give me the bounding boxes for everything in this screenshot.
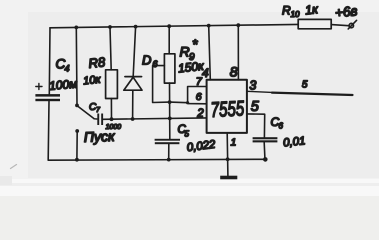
node: C5/R9-trigger junction <box>168 117 172 121</box>
node: rail-D6 junction <box>134 25 138 29</box>
wire: pin 7 branch <box>188 87 207 103</box>
svg-text:1000: 1000 <box>106 124 122 131</box>
IC U1: 7555 timer body <box>207 80 247 133</box>
svg-text:6: 6 <box>196 91 202 103</box>
wire: C5 bottom lead <box>168 144 170 159</box>
wire: D6 top lead <box>133 27 135 76</box>
svg-text:10к: 10к <box>83 74 102 88</box>
node: rail end dot <box>263 157 268 162</box>
diode D6 triangle <box>124 77 142 90</box>
wire: trigger line C7 to pin 2 <box>103 118 207 119</box>
wire: R10 to terminal <box>331 25 348 26</box>
wire: ground bottom rail <box>48 158 265 161</box>
capacitor C5 <box>155 139 180 141</box>
wire: bracket around R9 <box>153 66 170 103</box>
capacitor C6 <box>253 137 278 139</box>
svg-text:1: 1 <box>231 136 237 148</box>
svg-text:7: 7 <box>196 76 203 88</box>
wire: output line to net 5 <box>272 93 353 95</box>
wire: C4 top lead <box>48 28 51 94</box>
node: rail-pin4 junction <box>207 24 211 28</box>
resistor R10 <box>298 19 331 28</box>
svg-text:8: 8 <box>230 64 238 80</box>
wire: pin 4 lead <box>209 26 211 80</box>
node: D6-trigger junction <box>131 117 135 121</box>
node: pin1-ground junction <box>226 157 230 161</box>
ground <box>220 176 237 180</box>
svg-text:5: 5 <box>185 130 190 139</box>
wire: R8 bottom lead <box>110 99 112 120</box>
scan artifact scratch <box>11 165 17 169</box>
svg-text:6: 6 <box>279 122 284 131</box>
node: pin7 junction <box>186 101 189 104</box>
svg-text:*: * <box>192 36 198 52</box>
svg-text:0,01: 0,01 <box>283 135 307 149</box>
svg-text:5: 5 <box>251 99 260 115</box>
wire: pin 6 line <box>170 102 207 104</box>
node: C5-ground junction <box>167 158 171 162</box>
capacitor C7 <box>94 118 97 120</box>
terminal +6V <box>349 23 353 27</box>
resistor R8 <box>106 70 118 99</box>
svg-text:2: 2 <box>196 108 204 120</box>
wire: switch upper lead <box>75 27 78 104</box>
resistor R9 <box>164 54 175 83</box>
wire: pin 5 lead to C6 <box>247 114 265 137</box>
node: rail-R9 junction <box>167 24 171 28</box>
capacitor C4 <box>35 94 60 97</box>
svg-text:3: 3 <box>249 79 256 93</box>
svg-text:4: 4 <box>202 66 209 80</box>
node: rail-pin8 junction <box>236 23 240 27</box>
wire: pin 1 lead to ground <box>226 133 229 176</box>
svg-text:7555: 7555 <box>210 97 245 122</box>
switch SB Пуск: pivot contact <box>75 104 79 108</box>
node: R8-trigger junction <box>110 117 114 121</box>
wire: R9 bottom lead down to C5 <box>169 83 171 139</box>
node: switch-ground junction <box>75 158 79 162</box>
svg-text:4: 4 <box>65 64 70 74</box>
wire: D6 bottom lead <box>132 90 134 119</box>
wire: switch lower contact to ground rail <box>76 132 78 159</box>
wire: C6 bottom lead <box>263 142 266 158</box>
switch SB arm <box>78 106 95 119</box>
svg-text:D: D <box>142 53 151 68</box>
node: rail-switch junction <box>74 26 78 30</box>
switch SB lower contact <box>75 129 79 133</box>
wire: pin 8 lead <box>237 25 239 80</box>
svg-text:+6в: +6в <box>334 3 358 20</box>
wire: pin 3 output lead <box>247 91 272 92</box>
wire: +V top rail <box>50 24 298 27</box>
wire: R9 top lead <box>168 26 170 54</box>
svg-text:100м: 100м <box>49 77 78 93</box>
svg-text:10: 10 <box>291 10 300 19</box>
node: R9-pin6 junction <box>168 100 172 104</box>
svg-text:5: 5 <box>302 80 308 91</box>
wire: C4 bottom lead <box>47 101 50 160</box>
node: rail-R8 junction <box>108 25 112 29</box>
wire: R8 top lead <box>110 27 111 70</box>
diode D6 cathode bar <box>125 76 142 78</box>
svg-text:R8: R8 <box>88 54 107 71</box>
